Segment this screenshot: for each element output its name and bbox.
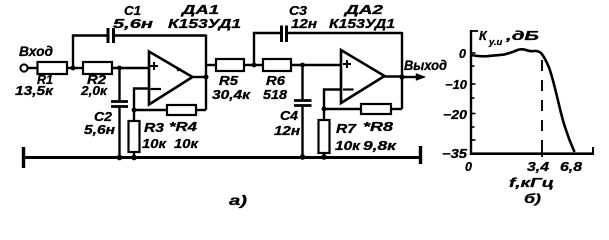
wire input to R1 — [28, 67, 39, 69]
capacitor C2 — [84, 102, 128, 138]
svg-text:С2: С2 — [94, 110, 112, 124]
svg-text:*R8: *R8 — [363, 120, 393, 134]
DA1 output vertical wire — [205, 35, 207, 111]
resistor R7 — [319, 120, 361, 153]
svg-text:10к: 10к — [174, 137, 199, 151]
op-amp DA1 — [149, 2, 241, 105]
svg-text:у.и: у.и — [488, 37, 503, 48]
ground rail — [23, 146, 421, 168]
rail junction C2 — [117, 155, 123, 161]
svg-text:12н: 12н — [291, 17, 318, 31]
wire node up to C1 line — [72, 35, 74, 69]
resistor R6 — [263, 59, 291, 102]
svg-text:С3: С3 — [289, 4, 307, 18]
svg-text:ДА2: ДА2 — [344, 2, 385, 17]
svg-text:ДА1: ДА1 — [181, 2, 219, 17]
wire C1 left — [72, 34, 107, 36]
node R7/R8 — [322, 107, 327, 112]
wire R4 right to output vertical — [196, 109, 206, 111]
wire R8 left — [324, 108, 361, 110]
y-axis labels — [442, 47, 468, 161]
dashed line at 3.4 kHz — [541, 60, 543, 156]
resistor R8 — [361, 104, 397, 153]
op-amp DA2 — [329, 2, 395, 103]
wire C1 right to output node — [115, 34, 206, 36]
wire node up to C3 line — [253, 32, 255, 65]
wire R7 to ground rail — [323, 153, 325, 158]
y-axis ticks — [471, 53, 476, 140]
svg-text:К153УД1: К153УД1 — [168, 17, 241, 31]
x-axis labels — [465, 160, 582, 190]
wire C2 to ground rail — [118, 107, 120, 158]
graph x-axis — [470, 147, 594, 154]
svg-text:12н: 12н — [274, 124, 301, 138]
svg-text:5,6н: 5,6н — [84, 123, 116, 137]
node R3/R4 — [132, 108, 137, 113]
wire R5 to R6 — [244, 64, 263, 66]
DA2 output apex wire — [384, 75, 402, 77]
capacitor C3 — [282, 4, 318, 42]
input terminal Вход — [19, 44, 53, 72]
rail junction R7 — [321, 154, 327, 160]
svg-text:R6: R6 — [266, 74, 286, 88]
svg-text:Вход: Вход — [19, 44, 53, 59]
resistor R1 — [15, 62, 67, 98]
svg-text:К153УД1: К153УД1 — [329, 17, 395, 31]
node output DA2 — [399, 74, 404, 79]
svg-text:f,кГц: f,кГц — [509, 176, 554, 190]
svg-text:а): а) — [229, 192, 247, 208]
rail junction R3 — [131, 155, 137, 161]
node between R5 and R6 — [252, 63, 257, 68]
wire op-amp DA1 minus input — [134, 89, 149, 122]
resistor R4 — [167, 105, 199, 151]
wire R1 to R2 — [67, 67, 83, 69]
capacitor C4 — [274, 101, 312, 139]
svg-text:10к: 10к — [142, 137, 167, 151]
wire R8 right to output vertical — [391, 108, 402, 110]
svg-text:R5: R5 — [219, 74, 239, 88]
svg-text:R3: R3 — [144, 121, 164, 135]
axis title Ку.и,дБ — [479, 29, 539, 48]
svg-text:*R4: *R4 — [169, 120, 197, 134]
DA2 output vertical wire — [401, 32, 403, 109]
svg-text:Выход: Выход — [404, 58, 447, 73]
node DA1 output — [204, 75, 209, 80]
svg-text:−20: −20 — [443, 108, 467, 122]
wire C3 right to DA2 output vertical — [288, 32, 402, 34]
graph y-axis — [471, 30, 478, 155]
resistor R5 — [212, 59, 251, 102]
DA1 output apex wire — [192, 76, 206, 78]
node after R6 — [300, 63, 305, 68]
wire R6 to op-amp DA2 + input — [291, 64, 341, 66]
svg-text:−35: −35 — [442, 147, 468, 161]
rail junction C4 — [300, 154, 306, 160]
resistor R2 — [80, 62, 112, 98]
svg-text:С1: С1 — [124, 4, 141, 18]
svg-text:518: 518 — [263, 88, 287, 102]
wire node down to C4 — [301, 65, 303, 99]
node after R2 — [117, 66, 122, 71]
wire node down to C2 — [118, 68, 120, 100]
svg-text:0: 0 — [459, 47, 466, 61]
wire output to R5 — [206, 64, 216, 66]
wire op-amp DA2 minus input — [324, 90, 341, 121]
svg-text:30,4к: 30,4к — [212, 88, 251, 102]
resistor R3 — [129, 121, 167, 152]
svg-text:6,8: 6,8 — [560, 160, 582, 174]
svg-text:3,4: 3,4 — [527, 160, 549, 174]
svg-text:С4: С4 — [280, 109, 298, 123]
svg-text:К: К — [479, 29, 488, 43]
wire R2 to op-amp + input — [112, 67, 149, 69]
capacitor C1 — [108, 4, 154, 43]
svg-text:R7: R7 — [336, 122, 357, 136]
svg-text:,дБ: ,дБ — [504, 29, 539, 43]
wire C3 left — [253, 32, 280, 34]
output arrow Выход — [402, 58, 447, 81]
svg-text:9,8к: 9,8к — [363, 139, 397, 153]
wire R3 to ground rail — [133, 152, 135, 158]
node between R1 and R2 — [71, 66, 76, 71]
svg-text:10к: 10к — [335, 139, 361, 153]
x-axis tick at 3.4 — [541, 150, 543, 157]
svg-text:13,5к: 13,5к — [15, 84, 54, 98]
wire R4 left — [134, 109, 167, 111]
svg-text:2,0к: 2,0к — [80, 84, 108, 98]
svg-text:−10: −10 — [445, 78, 467, 92]
svg-text:5,6н: 5,6н — [113, 17, 154, 31]
wire C4 to ground rail — [301, 106, 303, 158]
svg-text:0: 0 — [465, 160, 472, 174]
response curve — [471, 49, 575, 152]
svg-text:б): б) — [524, 191, 541, 206]
